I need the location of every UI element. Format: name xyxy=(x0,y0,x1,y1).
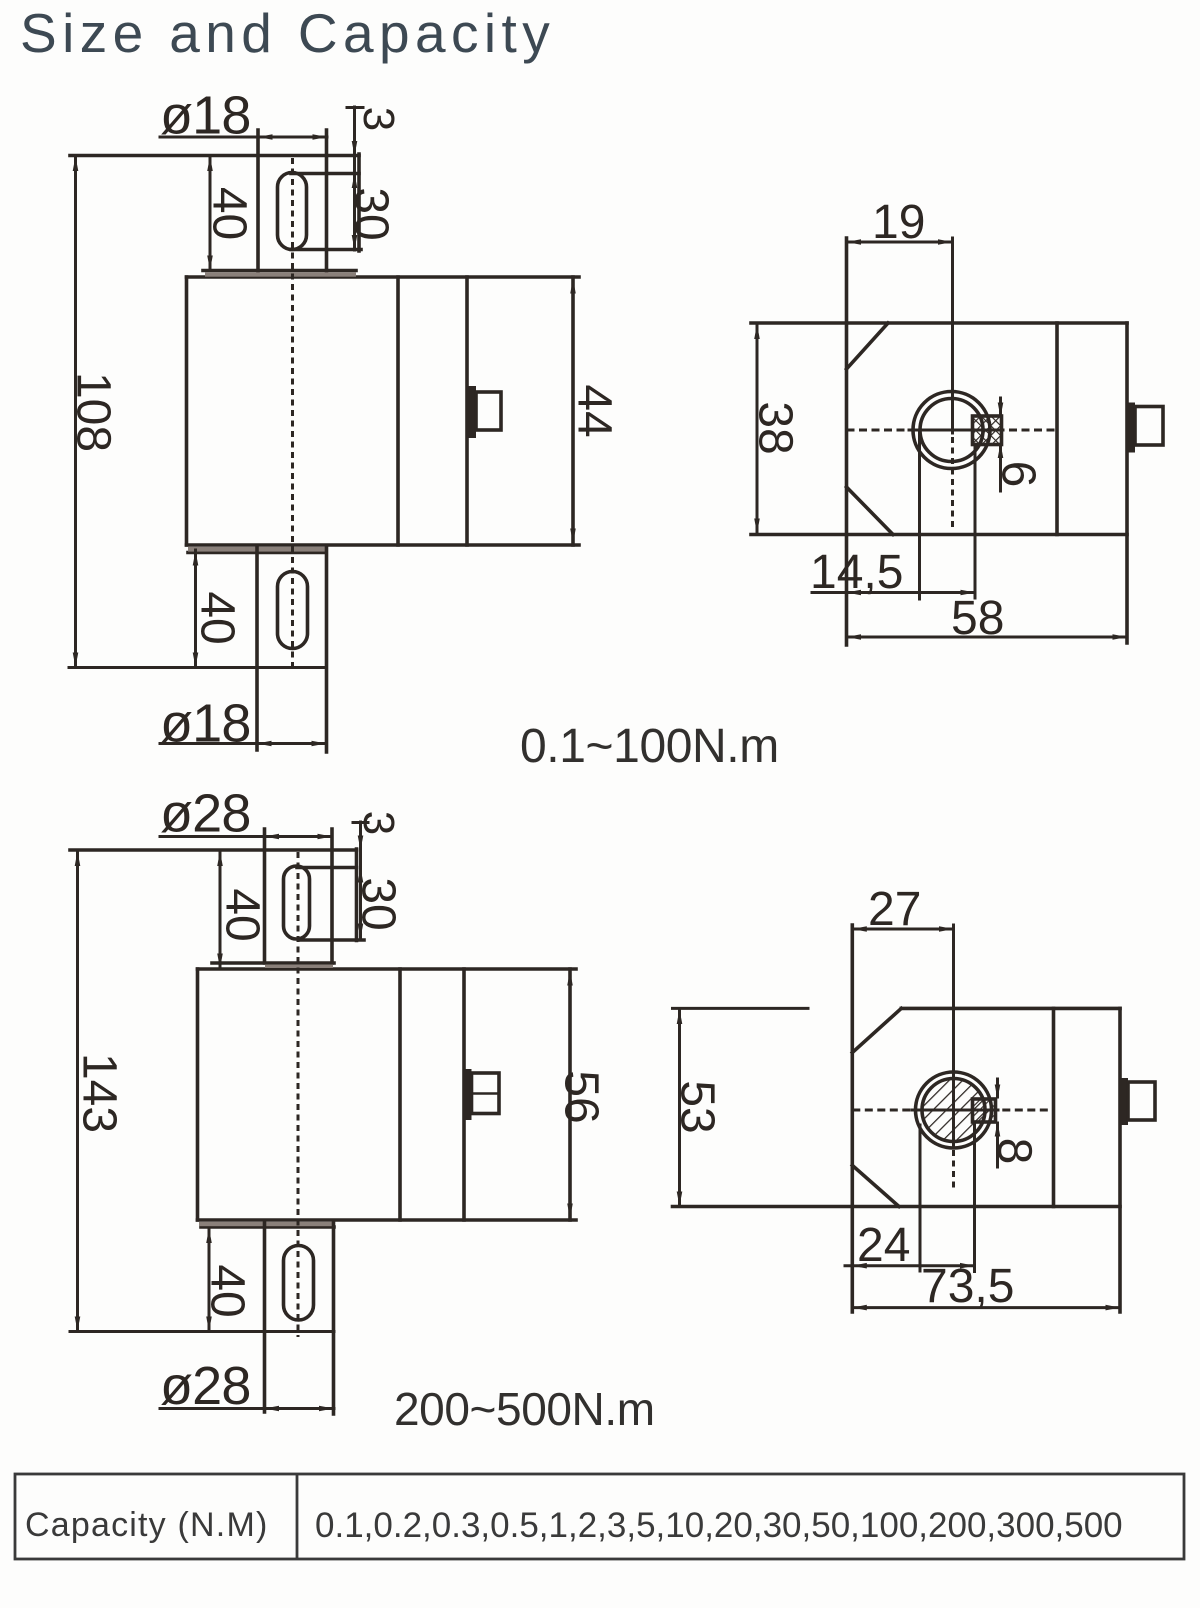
tick at 3-dim top xyxy=(347,106,363,109)
dim line 8 lower xyxy=(996,1123,999,1167)
bottom shaft right edge xyxy=(325,548,329,752)
arrow 6 lower xyxy=(998,444,1004,459)
arrow 73,5 left xyxy=(852,1305,867,1311)
body left edge d2 xyxy=(196,969,200,1220)
arrow 24 left xyxy=(852,1263,867,1269)
arrow 19 right xyxy=(938,239,953,245)
bottom keyway slot oval d2 xyxy=(284,1246,314,1321)
gray band bottom xyxy=(188,547,326,552)
dim line 19 xyxy=(847,241,953,244)
dim line 40 top xyxy=(209,156,212,270)
keyway bottom line d2 xyxy=(299,938,364,942)
chamfer bottom-left d2 xyxy=(852,1165,899,1206)
outer circle xyxy=(913,392,990,469)
dim line ø18 bottom xyxy=(160,742,326,745)
bottom extension line xyxy=(69,666,326,669)
arrow 108 top xyxy=(73,157,79,172)
top shaft left edge xyxy=(256,130,260,272)
svg-text:38: 38 xyxy=(749,401,802,454)
svg-text:0.1~100N.m: 0.1~100N.m xyxy=(520,720,779,773)
dim line 6 upper xyxy=(999,398,1002,415)
svg-text:40: 40 xyxy=(191,591,244,644)
arrow 56 top xyxy=(567,971,573,986)
arrow ø28 top right xyxy=(318,834,333,840)
chamfer bottom-left xyxy=(847,487,894,535)
arrow 40 bottom upper d2 xyxy=(206,1229,212,1244)
top shaft right edge d2 xyxy=(330,829,334,963)
svg-text:30: 30 xyxy=(345,187,398,240)
step line bottom xyxy=(188,551,326,555)
svg-text:14,5: 14,5 xyxy=(810,546,903,599)
body internal line 1 xyxy=(396,277,400,545)
body top edge d2 xyxy=(198,967,577,971)
dim line 108 xyxy=(74,156,77,667)
arrow 40 bottom lower d2 xyxy=(206,1317,212,1332)
svg-text:44: 44 xyxy=(568,384,621,437)
crosshair horizontal solid segment d2 xyxy=(912,1109,998,1112)
arrow 19 left xyxy=(847,239,862,245)
key square d2 xyxy=(973,1099,996,1122)
body right edge / dim line 56 xyxy=(568,969,572,1220)
block top edge d2 xyxy=(901,1007,1120,1011)
svg-text:Size and Capacity: Size and Capacity xyxy=(20,2,555,64)
bore tangent projection line xyxy=(918,432,921,599)
connector square front 1 xyxy=(476,392,501,430)
step line top d2 xyxy=(212,961,334,965)
dim line 27 xyxy=(852,928,953,931)
arrow 3 upper d2 xyxy=(358,836,364,851)
step line top xyxy=(203,269,356,273)
dim line ø28 bottom xyxy=(160,1407,334,1410)
dim line 6 lower xyxy=(999,445,1002,491)
body left edge xyxy=(185,277,189,545)
dim line 38 xyxy=(756,324,759,533)
svg-text:58: 58 xyxy=(951,592,1004,645)
dim line 40 top d2 xyxy=(219,851,222,968)
svg-text:24: 24 xyxy=(857,1219,910,1272)
table outer border xyxy=(15,1474,1184,1559)
dim line 143 xyxy=(76,851,79,1331)
centerline drawing2 front xyxy=(297,852,300,1337)
shaft top face line d2 xyxy=(70,848,357,852)
connector bar side 1 xyxy=(1126,403,1135,453)
svg-text:200~500N.m: 200~500N.m xyxy=(394,1383,655,1435)
vertical centerline dotted part xyxy=(951,437,954,527)
dim line 3/30 vertical xyxy=(353,107,356,250)
arrow 143 bottom xyxy=(75,1317,81,1332)
keyway bottom line xyxy=(291,248,361,252)
arrow ø28 bottom left xyxy=(265,1406,280,1412)
shaft top face line xyxy=(70,154,359,158)
plate right edge xyxy=(357,154,361,251)
arrow 38 top xyxy=(754,325,760,340)
arrow 40 bottom lower xyxy=(193,653,199,668)
connector bar front 2 xyxy=(466,1069,472,1120)
arrow 53 top xyxy=(677,1010,683,1025)
arrow 6 upper xyxy=(998,403,1004,418)
svg-text:40: 40 xyxy=(203,187,256,240)
connector square side 1 xyxy=(1135,407,1163,446)
arrow 40 top lower xyxy=(207,256,213,271)
connector square front 2 xyxy=(472,1073,500,1114)
svg-text:ø28: ø28 xyxy=(160,1356,251,1416)
connector bar front 1 xyxy=(467,386,477,438)
svg-text:27: 27 xyxy=(868,883,921,936)
svg-text:6: 6 xyxy=(992,461,1045,488)
arrow 8 lower xyxy=(995,1122,1001,1137)
vertical centerline solid part d2 xyxy=(952,925,955,1147)
svg-text:40: 40 xyxy=(201,1264,254,1317)
chamfer top-left xyxy=(847,323,889,369)
arrow 27 left xyxy=(852,926,867,932)
svg-text:19: 19 xyxy=(872,196,925,249)
arrow 30 bottom xyxy=(352,235,358,250)
arrow ø18 bottom left xyxy=(257,741,272,747)
arrow ø18 top left xyxy=(258,134,273,140)
bore tangent projection line d2 xyxy=(919,1125,922,1271)
block right edge d2 xyxy=(1118,1008,1122,1312)
key square xyxy=(973,416,1002,445)
block right edge xyxy=(1125,323,1129,643)
53 top extension line xyxy=(673,1007,809,1010)
svg-text:Capacity (N.M): Capacity (N.M) xyxy=(25,1506,269,1544)
keyway top line d2 xyxy=(297,866,357,870)
arrow 3 upper (tip at shaft face) xyxy=(352,141,358,156)
dim line 40 bottom d2 xyxy=(208,1228,211,1331)
svg-text:3: 3 xyxy=(354,811,403,835)
arrow ø18 top right xyxy=(313,134,328,140)
key square hatch d2 xyxy=(973,1099,996,1122)
centerline drawing1 front xyxy=(291,158,294,668)
body bottom edge xyxy=(187,543,580,547)
key left projection line xyxy=(974,446,977,598)
arrow 38 bottom xyxy=(754,519,760,534)
arrow 58 right xyxy=(1113,634,1128,640)
body internal line 2 d2 xyxy=(462,969,466,1220)
arrow 58 left xyxy=(847,634,862,640)
arrow 44 top xyxy=(570,279,576,294)
gray band top xyxy=(205,272,356,276)
arrow 40 top upper d2 xyxy=(217,852,223,867)
arrow 44 bottom xyxy=(570,529,576,544)
dim line 8 upper xyxy=(996,1079,999,1097)
block left edge xyxy=(845,238,849,645)
dim line 3/30 vertical d2 xyxy=(359,822,362,938)
bottom extension line d2 xyxy=(70,1330,334,1333)
block left edge d2 xyxy=(850,925,854,1312)
bottom keyway slot oval xyxy=(278,572,308,649)
key left projection line d2 xyxy=(973,1125,976,1272)
svg-text:40: 40 xyxy=(216,888,269,941)
arrow ø18 bottom right xyxy=(312,741,327,747)
arrow 40 top upper xyxy=(207,157,213,172)
inner circle hatch d2 xyxy=(924,1080,984,1140)
key square hatch xyxy=(973,416,1002,445)
body bottom edge d2 xyxy=(198,1218,577,1222)
plate right edge d2 xyxy=(355,849,359,941)
arrow 30 bottom d2 xyxy=(358,924,364,939)
svg-text:53: 53 xyxy=(671,1080,724,1133)
arrow 53 bottom xyxy=(677,1192,683,1207)
arrow 14,5 left xyxy=(847,590,862,596)
arrow 56 bottom xyxy=(567,1204,573,1219)
connector bar side 2 xyxy=(1119,1078,1128,1125)
dim line ø28 top xyxy=(160,835,332,838)
bottom shaft right edge d2 xyxy=(332,1222,336,1414)
crosshair horizontal solid segment xyxy=(909,429,999,432)
dim line 58 xyxy=(847,636,1128,639)
inner circle xyxy=(920,399,983,462)
block bottom edge d2 xyxy=(673,1205,1121,1209)
connector square mid line xyxy=(472,1092,500,1094)
section line xyxy=(1055,323,1059,535)
svg-text:3: 3 xyxy=(354,107,403,131)
arrow 108 bottom xyxy=(73,653,79,668)
gray band top d2 xyxy=(265,965,333,968)
block top edge xyxy=(751,321,1127,325)
svg-text:108: 108 xyxy=(67,372,120,452)
arrow 24 right xyxy=(960,1263,975,1269)
vertical centerline dotted part d2 xyxy=(952,1150,955,1192)
svg-text:8: 8 xyxy=(988,1138,1041,1165)
horizontal centerline d2 xyxy=(852,1109,1053,1112)
bottom shaft left edge d2 xyxy=(263,1222,267,1412)
body internal line 2 xyxy=(465,277,469,545)
chamfer top-left d2 xyxy=(852,1008,901,1052)
svg-text:0.1,0.2,0.3,0.5,1,2,3,5,10,20,: 0.1,0.2,0.3,0.5,1,2,3,5,10,20,30,50,100,… xyxy=(315,1506,1123,1545)
svg-text:73,5: 73,5 xyxy=(921,1260,1014,1313)
step line bottom d2 xyxy=(201,1225,334,1229)
section line d2 xyxy=(1052,1008,1056,1206)
arrow ø28 top left xyxy=(265,834,280,840)
vertical centerline solid part xyxy=(951,238,954,433)
body top edge xyxy=(187,275,580,279)
keyway top line xyxy=(291,172,359,176)
arrow ø28 bottom right xyxy=(319,1406,334,1412)
arrow 143 top xyxy=(75,852,81,867)
dim line 53 xyxy=(678,1009,681,1206)
outer circle d2 xyxy=(916,1072,992,1148)
svg-text:ø18: ø18 xyxy=(160,694,251,754)
top keyway slot oval d2 xyxy=(284,866,310,939)
top keyway slot oval xyxy=(278,173,307,250)
arrow 73,5 right xyxy=(1106,1305,1121,1311)
bottom shaft left edge xyxy=(255,548,259,750)
body right edge / dim line 44 xyxy=(571,277,575,545)
top shaft right edge xyxy=(325,130,329,272)
arrow 40 bottom upper xyxy=(193,551,199,566)
dim line 73,5 xyxy=(852,1306,1120,1309)
horizontal centerline xyxy=(847,429,1058,432)
svg-text:30: 30 xyxy=(352,877,405,930)
arrow 27 right xyxy=(939,926,954,932)
dim line 40 bottom xyxy=(194,550,197,667)
dim line 24 xyxy=(845,1264,975,1267)
tick at 3-dim top d2 xyxy=(353,821,368,824)
connector square side 2 xyxy=(1128,1082,1155,1120)
arrow 8 upper xyxy=(995,1085,1001,1100)
dim line ø18 top xyxy=(160,136,327,139)
arrow 30 top d2 xyxy=(358,868,364,883)
svg-text:56: 56 xyxy=(555,1070,608,1123)
svg-text:143: 143 xyxy=(73,1053,126,1133)
svg-text:ø28: ø28 xyxy=(160,784,251,844)
inner circle d2 xyxy=(922,1079,985,1142)
dim line 14,5 xyxy=(812,591,975,594)
arrow 14,5 right xyxy=(961,590,976,596)
body internal line 1 d2 xyxy=(398,969,402,1220)
arrow 30 top (tip at keyway line) xyxy=(352,174,358,189)
top shaft left edge d2 xyxy=(263,829,267,963)
block bottom edge xyxy=(751,533,1127,537)
gray band bottom d2 xyxy=(199,1222,333,1226)
table divider xyxy=(296,1474,299,1559)
arrow 40 top lower d2 xyxy=(217,954,223,969)
